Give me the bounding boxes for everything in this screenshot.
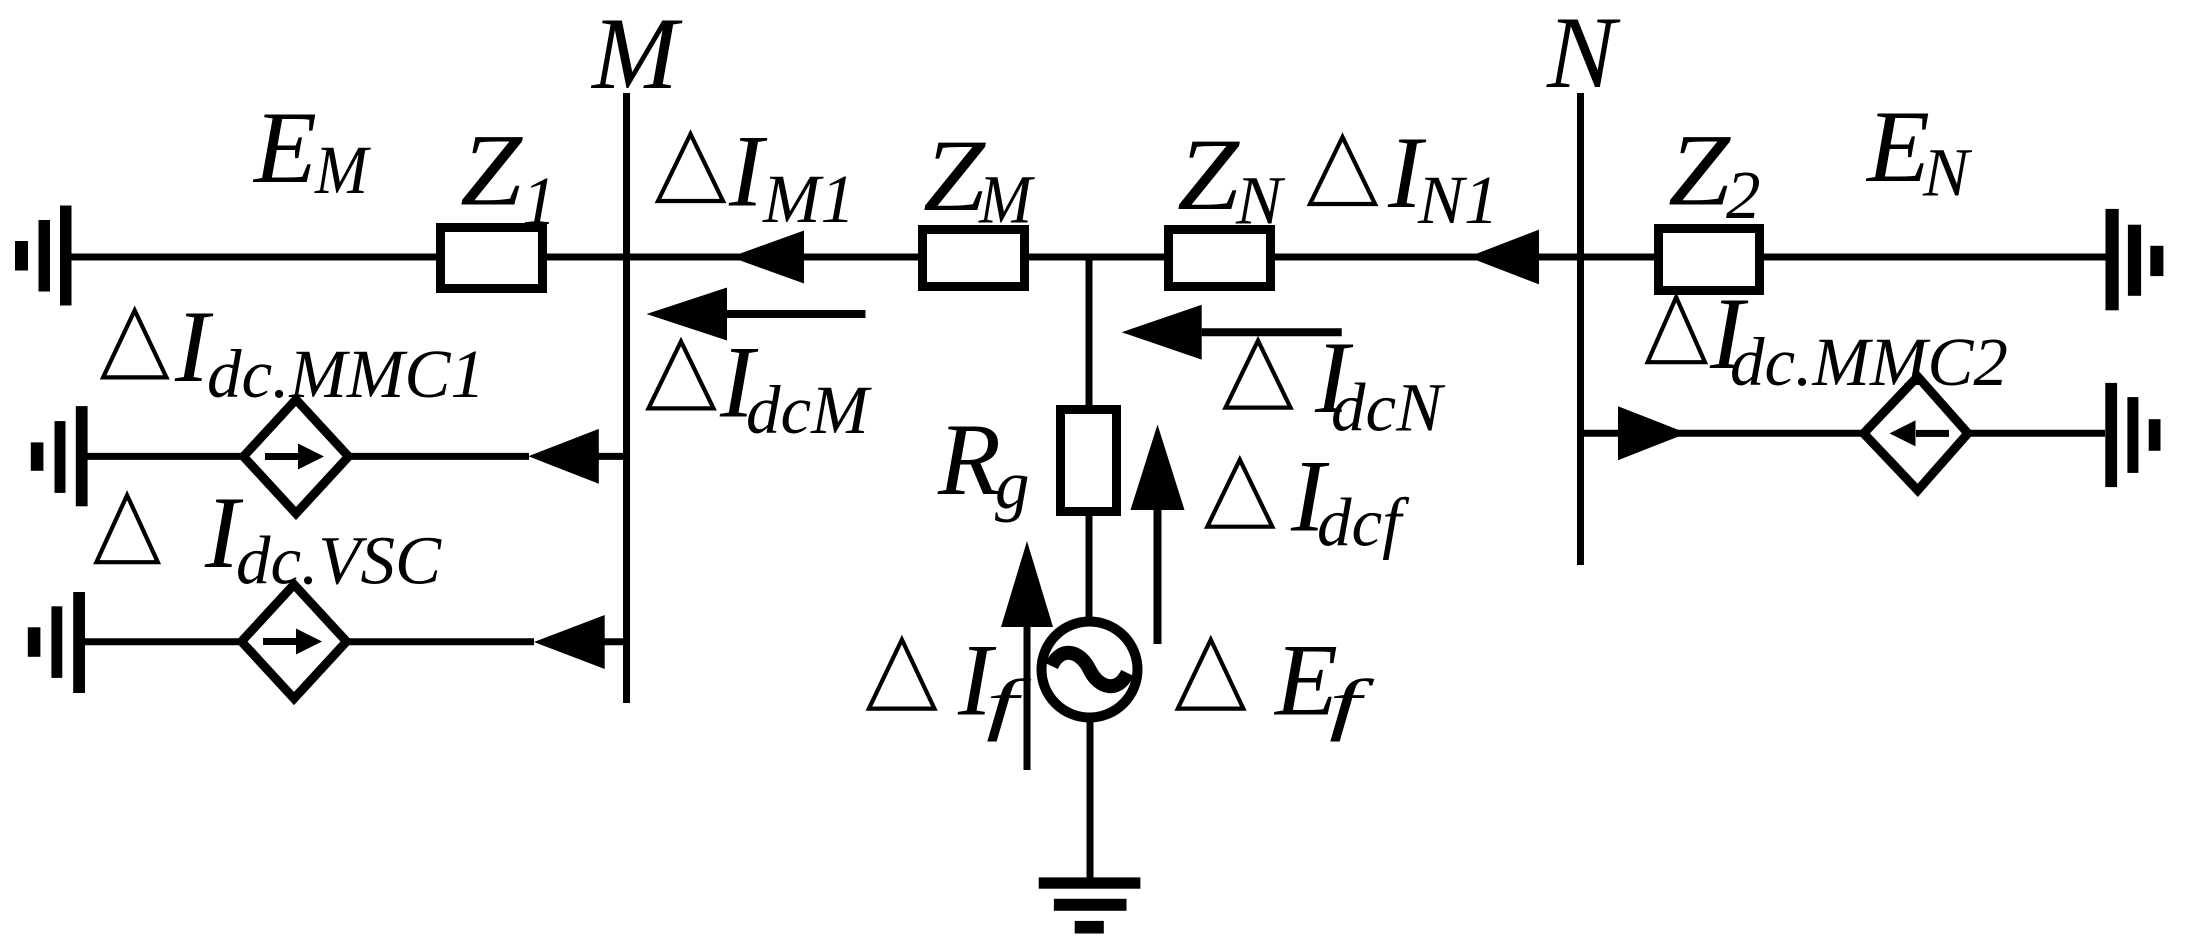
svg-text:dcf: dcf [1317, 485, 1410, 561]
svg-text:Z: Z [923, 119, 987, 233]
svg-text:M1: M1 [762, 161, 855, 237]
svg-text:N: N [1546, 0, 1621, 110]
svg-text:R: R [937, 403, 1001, 517]
svg-text:I: I [728, 115, 768, 229]
svg-text:dc.VSC: dc.VSC [236, 523, 442, 599]
svg-text:Z: Z [460, 114, 524, 228]
svg-text:N1: N1 [1417, 162, 1499, 238]
svg-text:N: N [1235, 163, 1286, 239]
svg-text:E: E [1865, 90, 1930, 204]
svg-text:2: 2 [1726, 157, 1761, 233]
svg-text:N: N [1922, 135, 1973, 211]
svg-text:Z: Z [1177, 118, 1241, 232]
svg-text:M: M [978, 162, 1035, 238]
svg-text:dcN: dcN [1331, 370, 1446, 446]
svg-text:M: M [590, 0, 683, 111]
svg-text:Z: Z [1668, 114, 1732, 228]
svg-text:dcM: dcM [746, 372, 872, 448]
svg-text:M: M [314, 132, 371, 208]
svg-text:1: 1 [522, 163, 557, 239]
svg-text:g: g [995, 447, 1030, 523]
svg-text:dc.MMC2: dc.MMC2 [1730, 324, 2008, 400]
svg-text:E: E [252, 91, 317, 205]
svg-text:dc.MMC1: dc.MMC1 [207, 336, 485, 412]
